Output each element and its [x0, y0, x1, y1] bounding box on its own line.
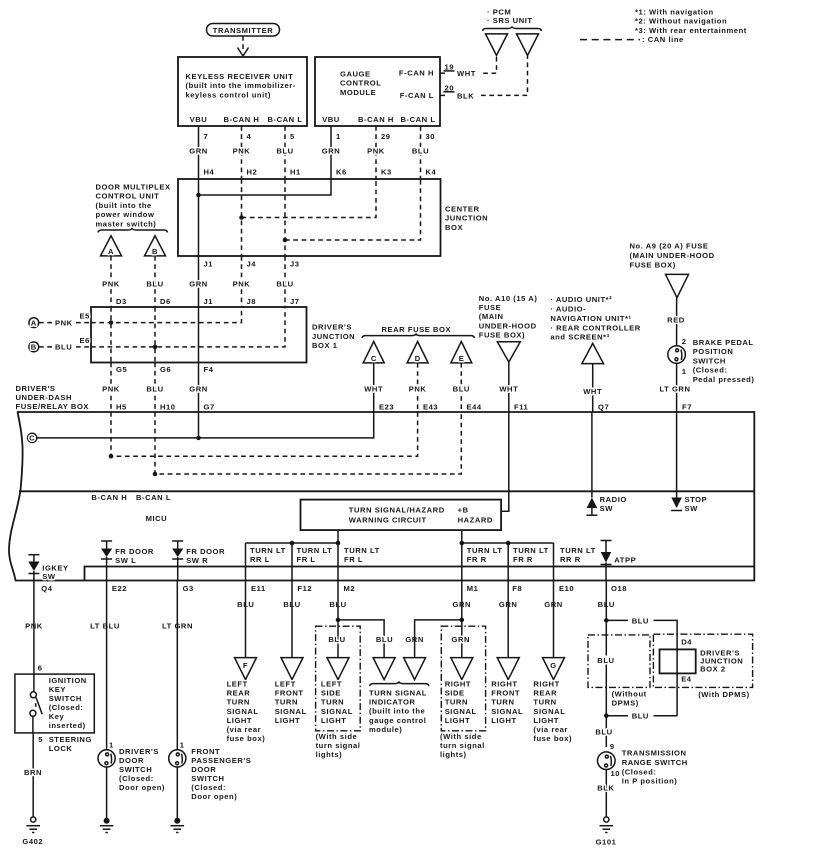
svg-text:F8: F8: [512, 584, 522, 593]
svg-text:(via rear: (via rear: [227, 725, 262, 734]
svg-text:RADIO: RADIO: [600, 495, 627, 504]
svg-text:1: 1: [682, 367, 687, 376]
connector triangle E: [451, 342, 472, 364]
svg-text:(built into the immobilizer-: (built into the immobilizer-: [186, 81, 296, 90]
wire BLU gauge B-CAN L pin 30: [412, 126, 437, 179]
wire PNK H2-K3 rung: [242, 179, 377, 256]
wire BRN to G402: [24, 733, 42, 817]
svg-text:DOOR: DOOR: [119, 756, 144, 765]
svg-text:G5: G5: [116, 365, 127, 374]
wire E5 rung to J8: [91, 307, 242, 323]
svg-text:4: 4: [247, 132, 252, 141]
connector triangle B: [145, 236, 166, 256]
svg-text:LEFT: LEFT: [275, 680, 296, 689]
svg-text:F: F: [243, 661, 248, 670]
ground G101: [596, 817, 617, 847]
label with side turn lights right: [440, 732, 485, 759]
svg-text:(Without: (Without: [612, 690, 647, 699]
wire M1 vertical: [461, 543, 463, 581]
turn signal indicator bracket: [370, 682, 429, 686]
wire PNK keyless B-CAN H pin 4: [233, 126, 258, 179]
svg-text:(built into the: (built into the: [96, 201, 152, 210]
pin G3: [162, 584, 194, 630]
connector row box: [85, 567, 755, 581]
svg-text:RANGE SWITCH: RANGE SWITCH: [622, 758, 688, 767]
svg-text:LIGHT: LIGHT: [275, 716, 301, 725]
svg-text:REAR: REAR: [533, 689, 557, 698]
connector triangle A: [101, 236, 122, 256]
svg-text:SIDE: SIDE: [445, 689, 465, 698]
svg-text:DRIVER'S: DRIVER'S: [312, 323, 352, 332]
svg-text:PNK: PNK: [233, 147, 251, 156]
switch symbol ATPP: [601, 541, 637, 581]
svg-text:FRONT: FRONT: [191, 747, 220, 756]
svg-text:TURN: TURN: [321, 698, 344, 707]
pin M1: [453, 584, 479, 609]
svg-text:(Closed:: (Closed:: [191, 783, 226, 792]
label right side turn signal light: [445, 680, 477, 725]
wire bus left turn: [246, 542, 339, 544]
svg-text:gauge control: gauge control: [369, 716, 426, 725]
wire GRN M1 to right side light: [461, 581, 463, 658]
svg-text:WARNING CIRCUIT: WARNING CIRCUIT: [349, 516, 427, 525]
svg-text:WHT: WHT: [364, 385, 383, 394]
wire BLU G6-H10: [146, 363, 175, 413]
svg-text:JUNCTION: JUNCTION: [312, 332, 355, 341]
wire RED A9 to brake switch: [667, 298, 685, 346]
svg-text:SW: SW: [600, 504, 614, 513]
svg-text:D4: D4: [681, 637, 692, 646]
svg-text:REAR FUSE BOX: REAR FUSE BOX: [382, 325, 452, 334]
wire BLU from triangle B: [146, 256, 170, 307]
svg-text:*2: Without navigation: *2: Without navigation: [635, 17, 727, 26]
svg-text:SWITCH: SWITCH: [119, 765, 152, 774]
node junction dot H5: [109, 454, 114, 459]
center junction box: [178, 179, 488, 256]
svg-text:*1: With navigation: *1: With navigation: [635, 8, 714, 17]
node junction dot M1 branch: [460, 618, 465, 623]
svg-text:· AUDIO-: · AUDIO-: [550, 305, 586, 314]
transmitter: [207, 24, 280, 37]
lamp triangle G right rear: [543, 658, 565, 680]
svg-text:Door open): Door open): [119, 783, 165, 792]
wire BLU H10-E44 internal rung: [155, 412, 461, 474]
label with side turn lights left: [316, 732, 361, 759]
svg-text:WHT: WHT: [457, 69, 476, 78]
svg-text:No. A10 (15 A): No. A10 (15 A): [479, 294, 538, 303]
wire M2 vertical: [337, 543, 339, 581]
connector triangle SRS: [517, 34, 539, 56]
wire BLU branch to TS indicator left: [338, 620, 384, 658]
svg-text:BLK: BLK: [457, 91, 474, 100]
wire bus right turn: [462, 542, 554, 544]
driver's junction box 1: [91, 307, 355, 363]
svg-text:BLU: BLU: [632, 616, 649, 625]
svg-text:TRANSMITTER: TRANSMITTER: [213, 26, 273, 35]
wire BLU keyless B-CAN L pin 5: [276, 126, 301, 179]
label turn signal indicator: [369, 689, 427, 734]
label TURN LT FR R 2: [513, 546, 549, 564]
svg-text:G402: G402: [22, 837, 43, 846]
svg-text:A: A: [31, 318, 37, 327]
dashed box with DPMS: [653, 634, 752, 687]
wire PNK H5-E43 internal rung: [111, 412, 418, 456]
svg-text:fuse box): fuse box): [227, 734, 266, 743]
svg-text:PNK: PNK: [233, 280, 251, 289]
audio unit label: [550, 295, 640, 342]
svg-text:PNK: PNK: [102, 385, 120, 394]
node junction dot M2 branch: [336, 618, 341, 623]
svg-text:E23: E23: [379, 403, 394, 412]
wire WHT F11 internal to +B: [501, 412, 509, 511]
pin Q4: [25, 584, 53, 630]
switch symbol IGKEY SW: [28, 555, 68, 581]
svg-text:(MAIN UNDER-HOOD: (MAIN UNDER-HOOD: [630, 251, 715, 260]
svg-text:SWITCH: SWITCH: [191, 774, 224, 783]
svg-text:BLU: BLU: [595, 727, 612, 736]
svg-text:A: A: [108, 247, 114, 256]
dashed box without DPMS: [588, 635, 650, 688]
svg-text:RIGHT: RIGHT: [491, 680, 517, 689]
legend CAN line dash sample: [580, 39, 640, 41]
pin F8: [499, 584, 522, 609]
svg-text:CONTROL UNIT: CONTROL UNIT: [96, 192, 160, 201]
svg-text:(MAIN: (MAIN: [479, 312, 504, 321]
svg-text:REAR: REAR: [227, 689, 251, 698]
svg-text:SIGNAL: SIGNAL: [533, 707, 565, 716]
svg-text:(Closed:: (Closed:: [49, 703, 84, 712]
wire LT GRN brake-F7: [660, 363, 692, 412]
wire GRN gauge VBU pin 1: [322, 126, 347, 179]
svg-text:TURN: TURN: [227, 698, 250, 707]
svg-text:BRAKE PEDAL: BRAKE PEDAL: [693, 338, 754, 347]
gauge control module box U-GAUGE: [315, 57, 440, 126]
svg-text:TURN LT: TURN LT: [297, 546, 333, 555]
svg-text:BLU: BLU: [632, 712, 649, 721]
transmission range switch SW-TR: [598, 749, 688, 786]
label left rear turn signal light: [227, 680, 266, 744]
switch symbol FR DOOR SW L: [101, 541, 154, 581]
wire GRN F4-G7: [189, 363, 215, 413]
svg-text:(via rear: (via rear: [533, 725, 568, 734]
svg-text:Q4: Q4: [41, 584, 52, 593]
lamp triangle left side: [327, 658, 349, 680]
svg-text:TURN LT: TURN LT: [467, 546, 503, 555]
label TURN LT FR L 2: [344, 546, 380, 564]
svg-text:30: 30: [426, 132, 436, 141]
svg-text:(built into the: (built into the: [369, 707, 425, 716]
svg-text:master switch): master switch): [96, 219, 157, 228]
svg-text:SIGNAL: SIGNAL: [275, 707, 307, 716]
node junction dot F12 bus: [290, 541, 295, 546]
svg-text:LIGHT: LIGHT: [491, 716, 517, 725]
svg-text:(Closed:: (Closed:: [693, 366, 728, 375]
wire GRN keyless VBU pin 7: [189, 126, 214, 179]
svg-text:TURN LT: TURN LT: [344, 546, 380, 555]
svg-text:E22: E22: [112, 584, 127, 593]
node junction dot D3-E5: [109, 320, 114, 325]
svg-text:E6: E6: [80, 336, 90, 345]
svg-text:2: 2: [682, 337, 687, 346]
svg-text:FR L: FR L: [344, 555, 363, 564]
wire D3-G5 through: [110, 307, 112, 363]
svg-text:(Closed:: (Closed:: [119, 774, 154, 783]
svg-text:Door open): Door open): [191, 792, 237, 801]
svg-text:FR DOOR: FR DOOR: [186, 547, 225, 556]
svg-text:UNDER-HOOD: UNDER-HOOD: [479, 321, 537, 330]
svg-text:J1: J1: [204, 260, 214, 269]
node junction dot Q18 top: [604, 618, 609, 623]
lamp triangle indicator left: [373, 658, 395, 680]
svg-text:LIGHT: LIGHT: [321, 716, 347, 725]
svg-text:FUSE BOX): FUSE BOX): [630, 261, 676, 270]
wire GRN branch to TS indicator right: [415, 620, 462, 658]
svg-text:FR R: FR R: [513, 555, 533, 564]
wire GRN H4-K6 rung: [199, 179, 332, 256]
wire F8 vertical: [507, 543, 509, 581]
svg-text:29: 29: [381, 132, 391, 141]
svg-text:J4: J4: [247, 260, 257, 269]
svg-text:BLU: BLU: [453, 385, 470, 394]
svg-text:FRONT: FRONT: [491, 689, 520, 698]
svg-text:9: 9: [610, 742, 615, 751]
front passenger's door switch SW-PDS: [169, 741, 252, 802]
wire BLU F12 to left front light: [291, 581, 293, 658]
svg-text:LT GRN: LT GRN: [660, 385, 691, 394]
svg-text:B-CAN L: B-CAN L: [400, 115, 435, 124]
node junction dot H10: [153, 472, 158, 477]
svg-text:(Closed:: (Closed:: [622, 767, 657, 776]
svg-text:SW R: SW R: [186, 556, 208, 565]
label TURN LT FR R: [467, 546, 503, 564]
pin E22: [90, 584, 127, 630]
driver's door switch SW-DDS: [98, 741, 165, 793]
svg-text:B-CAN L: B-CAN L: [267, 115, 302, 124]
svg-text:turn signal: turn signal: [440, 741, 485, 750]
svg-text:LT BLU: LT BLU: [90, 621, 120, 630]
svg-text:BOX: BOX: [445, 223, 463, 232]
svg-text:F12: F12: [297, 584, 312, 593]
svg-text:PNK: PNK: [367, 147, 385, 156]
svg-text:BLU: BLU: [276, 280, 293, 289]
wire transmitter dashed arrow: [242, 36, 244, 49]
svg-text:TRANSMISSION: TRANSMISSION: [622, 749, 687, 758]
svg-text:inserted): inserted): [49, 721, 86, 730]
svg-text:C: C: [371, 354, 377, 363]
brake pedal position switch SW-BPP: [668, 337, 755, 384]
svg-text:NAVIGATION UNIT*¹: NAVIGATION UNIT*¹: [550, 314, 631, 323]
svg-text:O18: O18: [611, 584, 627, 593]
svg-text:E5: E5: [80, 312, 91, 321]
fuse A9 label: [630, 242, 715, 270]
node junction dot M1 bus: [460, 541, 465, 546]
svg-text:KEYLESS RECEIVER UNIT: KEYLESS RECEIVER UNIT: [186, 72, 294, 81]
wire PNK gauge B-CAN H pin 29: [367, 126, 392, 179]
wire PNK G5-H5: [102, 363, 127, 413]
under-dash fuse/relay box outline: [15, 412, 754, 581]
node junction dot F8 bus: [506, 541, 511, 546]
lamp triangle right side: [451, 658, 473, 680]
svg-text:E4: E4: [681, 675, 692, 684]
svg-text:GRN: GRN: [189, 147, 208, 156]
svg-text:WHT: WHT: [499, 385, 518, 394]
wire WHT dashed to PCM triangle: [483, 56, 496, 74]
wire PNK from triangle A: [102, 256, 127, 307]
wire to ground driver door: [106, 767, 108, 821]
svg-text:CONTROL: CONTROL: [340, 79, 381, 88]
connector triangle C: [363, 342, 384, 364]
svg-text:INDICATOR: INDICATOR: [369, 698, 415, 707]
svg-text:+B: +B: [458, 506, 469, 515]
lamp triangle indicator right: [404, 658, 426, 680]
driver's under-dash fuse/relay box label: [16, 384, 90, 411]
node A connector circle: [29, 312, 91, 328]
pin 5 steering lock: [38, 735, 92, 753]
svg-text:TURN: TURN: [491, 698, 514, 707]
pin 9 transmission: [610, 742, 615, 751]
svg-text:DRIVER'S: DRIVER'S: [119, 747, 159, 756]
wire BLU Q18 down: [605, 581, 607, 748]
svg-text:FUSE: FUSE: [479, 303, 501, 312]
svg-text:B: B: [152, 247, 158, 256]
svg-text:BLU: BLU: [146, 385, 163, 394]
svg-text:1: 1: [109, 741, 114, 750]
svg-text:MODULE: MODULE: [340, 88, 376, 97]
svg-text:(With side: (With side: [316, 732, 358, 741]
svg-text:B-CAN L: B-CAN L: [136, 493, 171, 502]
svg-text:and SCREEN*³: and SCREEN*³: [550, 333, 609, 342]
wire LT GRN G3 down: [176, 581, 178, 750]
wire GRN G7 internal: [198, 412, 200, 438]
svg-text:lights): lights): [316, 750, 343, 759]
svg-text:FR R: FR R: [467, 555, 487, 564]
node junction dot H2: [239, 215, 244, 220]
wire GRN J1 out: [189, 256, 213, 307]
svg-text:BLU: BLU: [328, 635, 345, 644]
wire BLK dashed to SRS triangle: [481, 56, 528, 96]
under-dash box wavy left edge: [9, 412, 23, 581]
pin Q18: [598, 584, 627, 609]
wire WHT E23 internal run: [37, 412, 374, 438]
svg-text:TURN: TURN: [445, 698, 468, 707]
svg-text:LEFT: LEFT: [321, 680, 342, 689]
pin E10: [544, 584, 574, 609]
svg-text:DPMS): DPMS): [612, 699, 639, 708]
dashed box left side light: [316, 626, 361, 731]
wire BLU H1-K4 rung: [285, 179, 421, 256]
pin M2: [329, 584, 355, 609]
pin 19 stub: [440, 62, 476, 78]
lamp triangle right front: [497, 658, 519, 680]
svg-text:VBU: VBU: [322, 115, 340, 124]
svg-text:LIGHT: LIGHT: [227, 716, 253, 725]
node junction dot H1: [283, 238, 288, 243]
wire E10 vertical: [553, 543, 555, 581]
svg-text:H4: H4: [204, 168, 215, 177]
svg-text:TURN SIGNAL/HAZARD: TURN SIGNAL/HAZARD: [349, 506, 445, 515]
svg-text:SWITCH: SWITCH: [693, 356, 726, 365]
switch symbol FR DOOR SW R: [172, 541, 225, 581]
svg-text:BOX 2: BOX 2: [700, 665, 726, 674]
label TURN LT FR L: [297, 546, 333, 564]
pin F12: [283, 584, 312, 609]
svg-text:turn signal: turn signal: [316, 741, 361, 750]
connector triangle D: [407, 342, 428, 364]
svg-text:19: 19: [445, 62, 455, 71]
wire E11 vertical: [245, 543, 247, 581]
svg-text:FUSE/RELAY BOX: FUSE/RELAY BOX: [16, 402, 90, 411]
label left front turn signal light: [275, 680, 307, 725]
rear fuse box label: [362, 325, 475, 338]
svg-text:SIGNAL: SIGNAL: [491, 707, 523, 716]
pin 20 stub: [440, 83, 474, 100]
svg-text:5: 5: [290, 132, 295, 141]
svg-text:BLU: BLU: [376, 635, 393, 644]
svg-text:J3: J3: [290, 260, 300, 269]
svg-text:SIGNAL: SIGNAL: [445, 707, 477, 716]
svg-text:RR R: RR R: [560, 555, 581, 564]
svg-text:LEFT: LEFT: [227, 680, 248, 689]
ground G402: [22, 817, 43, 846]
svg-text:H10: H10: [160, 403, 176, 412]
wire J1-F4 through: [198, 307, 200, 363]
svg-text:E: E: [459, 354, 465, 363]
svg-text:B-CAN H: B-CAN H: [224, 115, 260, 124]
wire BLU E11 to left rear light: [245, 581, 247, 658]
svg-text:power window: power window: [96, 210, 155, 219]
svg-text:K4: K4: [426, 168, 437, 177]
svg-text:SIGNAL: SIGNAL: [321, 707, 353, 716]
svg-text:LIGHT: LIGHT: [445, 716, 471, 725]
wire PNK Q4 down: [33, 581, 35, 675]
svg-text:SIDE: SIDE: [321, 689, 341, 698]
wire to ground passenger door: [176, 767, 178, 821]
svg-text:BLU: BLU: [412, 147, 429, 156]
svg-text:SWITCH: SWITCH: [49, 694, 82, 703]
svg-text:FRONT: FRONT: [275, 689, 304, 698]
svg-text:PASSENGER'S: PASSENGER'S: [191, 756, 251, 765]
svg-text:BLU: BLU: [597, 656, 614, 665]
wire BLU branch bottom from DPMS: [606, 715, 677, 717]
svg-text:J7: J7: [290, 297, 300, 306]
dashed box right side light: [441, 626, 485, 731]
label right front turn signal light: [491, 680, 523, 725]
svg-text:F-CAN L: F-CAN L: [400, 91, 434, 100]
legend notes: [635, 8, 747, 45]
svg-text:ATPP: ATPP: [614, 556, 636, 565]
svg-text:lights): lights): [440, 750, 467, 759]
svg-text:DRIVER'S: DRIVER'S: [16, 384, 56, 393]
node PCM / SRS UNIT: [483, 8, 542, 32]
svg-text:LOCK: LOCK: [49, 744, 73, 753]
lamp triangle F left rear: [235, 658, 257, 680]
svg-text:K6: K6: [336, 168, 347, 177]
svg-text:B: B: [31, 343, 37, 352]
svg-text:Q7: Q7: [598, 403, 609, 412]
svg-text:GRN: GRN: [189, 385, 208, 394]
svg-text:E44: E44: [467, 403, 482, 412]
svg-text:BLU: BLU: [146, 280, 163, 289]
svg-text:E43: E43: [423, 403, 438, 412]
svg-text:POSITION: POSITION: [693, 347, 734, 356]
label left side turn signal light: [321, 680, 353, 725]
node junction dot G7: [196, 436, 201, 441]
svg-text:SIGNAL: SIGNAL: [227, 707, 259, 716]
svg-text:B-CAN H: B-CAN H: [91, 493, 127, 502]
svg-text:TURN LT: TURN LT: [250, 546, 286, 555]
svg-text:20: 20: [445, 83, 455, 92]
node B connector circle: [29, 336, 91, 352]
